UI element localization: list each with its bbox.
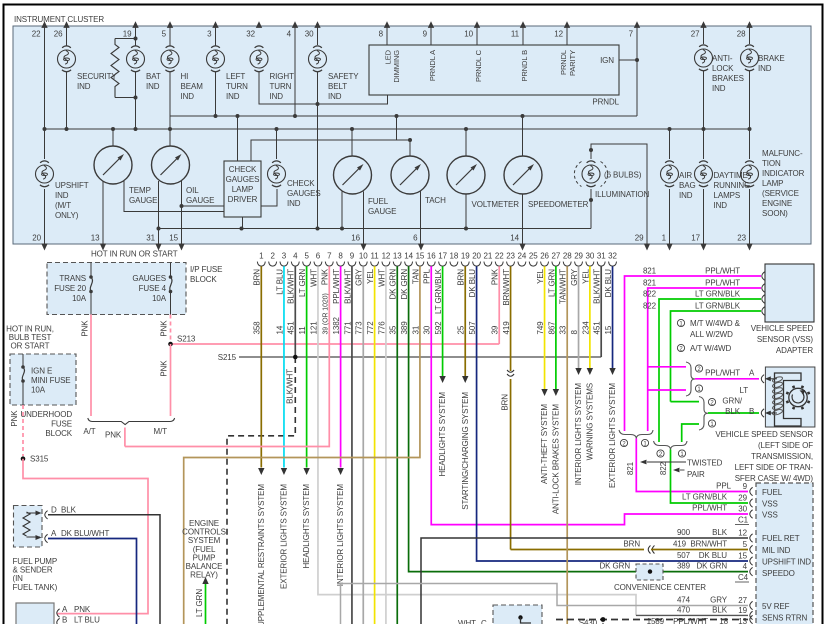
svg-text:16: 16 xyxy=(351,234,360,243)
wire 15 TAN down-left to bottom xyxy=(184,266,420,624)
wire 5 LT GRN to headlights system xyxy=(306,266,308,467)
wire IGN to pin7 xyxy=(619,59,637,61)
svg-text:HEADLIGHTS SYSTEM: HEADLIGHTS SYSTEM xyxy=(302,484,311,569)
svg-text:WHT: WHT xyxy=(377,269,386,287)
svg-text:PRNDL: PRNDL xyxy=(592,98,619,107)
underbrace 821 pair xyxy=(619,430,653,439)
svg-text:29: 29 xyxy=(738,494,747,503)
wire 4 BLK/WHT to S215 xyxy=(294,266,296,357)
svg-text:PNK: PNK xyxy=(105,431,122,440)
pin 2 (harness connector) xyxy=(269,252,277,267)
svg-text:PPL/WHT: PPL/WHT xyxy=(705,369,740,378)
wire 29 GRY to interior lights system xyxy=(578,266,580,368)
brace VSS A select xyxy=(686,362,695,396)
svg-text:TRANS: TRANS xyxy=(59,274,86,283)
svg-text:16: 16 xyxy=(427,252,436,261)
pin 3 (cluster top) xyxy=(207,21,219,38)
wire bus D (y=228.5) xyxy=(159,228,592,230)
pin 13 (harness connector) xyxy=(393,252,402,267)
svg-text:451: 451 xyxy=(593,321,602,335)
wire bus C (y=104) xyxy=(259,72,388,104)
pin 26 (harness connector) xyxy=(540,252,549,267)
vehicle speed sensor box with gear xyxy=(765,367,815,427)
svg-text:IND: IND xyxy=(146,82,160,91)
svg-text:LT GRN/BLK: LT GRN/BLK xyxy=(682,493,728,502)
svg-text:6: 6 xyxy=(413,234,418,243)
svg-text:30: 30 xyxy=(305,30,314,39)
svg-text:MINI FUSE: MINI FUSE xyxy=(31,376,71,385)
svg-text:RIGHT: RIGHT xyxy=(270,72,295,81)
pin 1 (cluster bottom) xyxy=(662,234,673,251)
pin 8 (harness connector) xyxy=(337,252,345,267)
svg-text:28: 28 xyxy=(563,252,572,261)
lamp SECURITY IND xyxy=(58,46,118,91)
wire 28 TAN/WHT down xyxy=(566,266,568,624)
svg-text:3: 3 xyxy=(282,252,287,261)
svg-text:26: 26 xyxy=(540,252,549,261)
pin 8 (cluster top) xyxy=(379,21,391,38)
PCM connector box (dashed) xyxy=(756,483,813,624)
pin 11 (cluster top) xyxy=(511,21,526,38)
pin arc fuel pump A xyxy=(45,534,48,542)
wire 30 YEL to warning systems xyxy=(589,266,591,368)
svg-text:11: 11 xyxy=(511,30,520,39)
svg-text:SUPPLEMENTAL RESTRAINTS SYSTEM: SUPPLEMENTAL RESTRAINTS SYSTEM xyxy=(257,484,266,624)
svg-text:S213: S213 xyxy=(177,335,196,344)
svg-text:A: A xyxy=(749,369,755,378)
svg-text:FUSE 4: FUSE 4 xyxy=(139,284,167,293)
wire temp gauge top lead xyxy=(112,129,114,146)
svg-text:15: 15 xyxy=(738,552,747,561)
pin 28 (harness connector) xyxy=(563,252,572,267)
svg-text:BLOCK: BLOCK xyxy=(45,429,72,438)
svg-text:IND: IND xyxy=(226,92,240,101)
svg-text:IGN: IGN xyxy=(600,56,614,65)
svg-text:18: 18 xyxy=(719,617,728,624)
wire 7 PNK to A/T-M/T splice xyxy=(125,266,329,446)
pin 27 PCM (5V REF) xyxy=(750,601,753,609)
svg-text:S215: S215 xyxy=(218,353,237,362)
pin arc VSS sensor B xyxy=(761,409,764,417)
pin 29 PCM (VSS) xyxy=(750,499,753,507)
svg-text:TURN: TURN xyxy=(270,82,292,91)
svg-text:VSS: VSS xyxy=(762,500,778,509)
pin 31 (harness connector) xyxy=(597,252,606,267)
circled 2 (brace B) xyxy=(708,398,715,405)
svg-text:1589: 1589 xyxy=(647,617,665,624)
svg-text:DK BLU: DK BLU xyxy=(699,551,728,560)
svg-text:17: 17 xyxy=(691,234,700,243)
svg-text:4: 4 xyxy=(293,252,298,261)
pin 26 (cluster top) xyxy=(54,21,70,38)
svg-text:AIR: AIR xyxy=(679,171,692,180)
svg-text:SOON): SOON) xyxy=(762,209,788,218)
svg-text:PPL/WHT: PPL/WHT xyxy=(673,617,708,624)
gauge FUEL GAUGE xyxy=(334,156,397,216)
wire 474 GRY to PCM 5V REF pin 27 xyxy=(341,584,749,624)
pin 10 (cluster top) xyxy=(464,21,480,38)
svg-text:TWISTED: TWISTED xyxy=(687,459,723,468)
pin 5 (cluster top) xyxy=(162,21,174,38)
svg-text:6: 6 xyxy=(316,252,321,261)
pin 29 (cluster bottom) xyxy=(635,234,650,251)
wire illumination bottom lead to bus D xyxy=(590,189,592,229)
svg-text:22: 22 xyxy=(495,252,504,261)
wire bus A to TACH riser xyxy=(396,116,398,140)
svg-text:LT GRN/BLK: LT GRN/BLK xyxy=(434,268,443,314)
svg-text:A: A xyxy=(62,605,68,614)
wire voltmeter top lead xyxy=(465,129,467,156)
svg-text:17: 17 xyxy=(438,252,447,261)
svg-text:GRY: GRY xyxy=(355,268,364,286)
wire 1 BRN to supplemental restraints system xyxy=(260,266,262,467)
svg-text:IND: IND xyxy=(55,191,69,200)
pin 14 (harness connector) xyxy=(404,252,413,267)
svg-text:BELT: BELT xyxy=(328,82,347,91)
wire 32 DK BLU to exterior lights system xyxy=(612,266,614,368)
svg-text:MIL IND: MIL IND xyxy=(762,546,791,555)
svg-text:SAFETY: SAFETY xyxy=(328,72,359,81)
pin 29 (harness connector) xyxy=(574,252,583,267)
wires PRNDL pins to box top xyxy=(386,26,388,45)
wire 19 BRN to starting/charging system xyxy=(464,266,466,376)
legend circled 1: M/T W/4WD & ALL W/2WD xyxy=(677,319,684,326)
svg-text:30: 30 xyxy=(586,252,595,261)
svg-text:TURN: TURN xyxy=(226,82,248,91)
brace VSS B select xyxy=(699,397,708,431)
svg-text:PNK: PNK xyxy=(10,410,19,427)
svg-text:PPL: PPL xyxy=(423,268,432,283)
svg-text:ANTI-THEFT SYSTEM: ANTI-THEFT SYSTEM xyxy=(540,404,549,484)
wire PNK S213 down to brace xyxy=(170,344,172,416)
svg-text:822: 822 xyxy=(659,461,668,475)
svg-text:TEMP: TEMP xyxy=(129,186,151,195)
svg-text:STARTING/CHARGING SYSTEM: STARTING/CHARGING SYSTEM xyxy=(461,392,470,510)
wire pin27/antilock + daytime vertical xyxy=(703,26,705,44)
svg-text:35: 35 xyxy=(389,325,398,334)
pin 12 PCM (FUEL RET) xyxy=(750,534,753,542)
svg-text:FUEL: FUEL xyxy=(368,197,389,206)
wire 22 PNK to S213 rail xyxy=(498,266,500,344)
wire check gauges ind bottom to driver xyxy=(261,189,277,206)
lamp BAT IND xyxy=(127,46,161,91)
svg-text:IND: IND xyxy=(287,199,301,208)
svg-text:ONLY): ONLY) xyxy=(55,211,79,220)
svg-text:HI: HI xyxy=(181,72,189,81)
svg-text:IND: IND xyxy=(758,64,772,73)
svg-text:772: 772 xyxy=(366,321,375,335)
gauge VOLTMETER xyxy=(447,156,519,209)
svg-text:BLOCK: BLOCK xyxy=(190,275,217,284)
wire 12 WHT down xyxy=(385,266,387,624)
svg-text:GRN/: GRN/ xyxy=(722,397,742,406)
svg-text:SENSOR (VSS): SENSOR (VSS) xyxy=(757,335,814,344)
svg-text:GAUGES: GAUGES xyxy=(287,189,321,198)
svg-text:FUEL RET: FUEL RET xyxy=(762,534,800,543)
svg-text:9: 9 xyxy=(743,482,748,491)
pin 19 PCM (SENS RTRN) xyxy=(750,611,753,619)
svg-text:10: 10 xyxy=(464,30,473,39)
pin 22 (harness connector) xyxy=(495,252,504,267)
junction dot tach riser xyxy=(408,138,412,142)
svg-text:ALL W/2WD: ALL W/2WD xyxy=(690,330,733,339)
svg-text:CHECK: CHECK xyxy=(287,179,315,188)
fuse GAUGES FUSE 4 10A xyxy=(132,263,172,315)
pin 13 (cluster bottom) xyxy=(91,234,106,251)
svg-text:19: 19 xyxy=(461,252,470,261)
wire bus A (IGN rail y=116) xyxy=(170,115,637,117)
svg-text:10A: 10A xyxy=(152,294,167,303)
wire 8 PPL/WHT to interior lights system xyxy=(340,266,342,467)
pin arc A xyxy=(57,609,60,617)
svg-text:IND: IND xyxy=(679,191,693,200)
lamp LEFT TURN IND xyxy=(207,46,249,101)
sender wiper arrows xyxy=(27,512,41,514)
lamp DAYTIME RUNNING LAMPS IND xyxy=(695,161,751,210)
svg-text:YEL: YEL xyxy=(366,268,375,283)
svg-text:INTERIOR LIGHTS SYSTEM: INTERIOR LIGHTS SYSTEM xyxy=(574,383,583,486)
svg-text:DK GRN: DK GRN xyxy=(400,269,409,300)
svg-text:PNK: PNK xyxy=(491,268,500,285)
wire pin22/upshift vertical xyxy=(44,26,46,159)
pin 17 (cluster bottom) xyxy=(691,234,706,251)
svg-text:PRNDL B: PRNDL B xyxy=(520,50,529,82)
svg-text:821: 821 xyxy=(643,267,657,276)
svg-text:LAMPS: LAMPS xyxy=(714,191,741,200)
wire LT GRN up-arrow to fuel pump balance relay xyxy=(205,584,207,624)
svg-text:900: 900 xyxy=(677,528,691,537)
svg-text:(SERVICE: (SERVICE xyxy=(762,189,799,198)
fuse TRANS FUSE 20 10A xyxy=(54,263,93,315)
svg-text:8: 8 xyxy=(570,330,579,335)
wire y140 link xyxy=(251,140,410,161)
svg-text:822: 822 xyxy=(643,302,657,311)
wire 822 LT GRN/BLK row 3 xyxy=(659,299,761,442)
svg-text:TAN/WHT: TAN/WHT xyxy=(559,269,568,304)
svg-text:PAIR: PAIR xyxy=(687,470,705,479)
wire pin28/brake + MIL vertical xyxy=(749,26,751,44)
gauge OIL GAUGE xyxy=(152,146,215,205)
circled 2 (brace A) xyxy=(695,365,702,372)
pin 12 (cluster top) xyxy=(554,21,570,38)
junction dot bus C safety belt xyxy=(316,102,320,106)
svg-text:DK BLU/WHT: DK BLU/WHT xyxy=(61,529,110,538)
circled 1 (underbrace 821) xyxy=(641,439,648,446)
sender resistor xyxy=(23,512,30,536)
svg-text:19: 19 xyxy=(123,30,132,39)
pin 19 (harness connector) xyxy=(461,252,470,267)
svg-text:8: 8 xyxy=(338,252,343,261)
wire PNK from gauges fuse to S213 (dashed) xyxy=(170,315,172,345)
svg-text:PNK: PNK xyxy=(160,360,169,377)
pin 5 (harness connector) xyxy=(303,252,311,267)
pin 4 (cluster top) xyxy=(287,21,299,38)
svg-text:5V REF: 5V REF xyxy=(762,602,790,611)
lamp MALFUNCTION INDICATOR xyxy=(741,149,805,218)
svg-text:SPEEDO: SPEEDO xyxy=(762,569,795,578)
svg-text:MALFUNC-: MALFUNC- xyxy=(762,149,803,158)
svg-text:ADAPTER: ADAPTER xyxy=(776,346,813,355)
svg-text:234: 234 xyxy=(581,321,590,335)
svg-text:LT GRN: LT GRN xyxy=(298,269,307,297)
wire pin5/hibeam vertical to oil gauge xyxy=(169,26,171,46)
wire fuel gauge left lead to bus D xyxy=(341,192,343,229)
svg-text:VEHICLE SPEED SENSOR: VEHICLE SPEED SENSOR xyxy=(715,430,813,439)
svg-text:27: 27 xyxy=(738,596,747,605)
svg-text:5: 5 xyxy=(743,540,748,549)
pin 20 (harness connector) xyxy=(472,252,481,267)
wire tach bottom lead to pin 6 xyxy=(420,192,422,244)
svg-text:OIL: OIL xyxy=(186,186,199,195)
svg-text:PPL/WHT: PPL/WHT xyxy=(705,279,740,288)
svg-text:FUSE: FUSE xyxy=(51,420,72,429)
PRNDL display module box xyxy=(369,45,619,95)
svg-text:C1: C1 xyxy=(738,516,749,525)
svg-text:BRN: BRN xyxy=(501,394,510,411)
pin 27 (cluster top) xyxy=(691,21,707,38)
svg-text:DAYTIME: DAYTIME xyxy=(714,171,748,180)
pin 15 (cluster bottom) xyxy=(169,234,184,251)
wire pin4 to bus A xyxy=(294,26,296,116)
wire daytime bottom lead to pin 17 xyxy=(703,189,705,244)
junction dot IGN node xyxy=(635,58,639,62)
pin 6 (harness connector) xyxy=(314,252,322,267)
svg-text:771: 771 xyxy=(343,321,352,335)
wire temp gauge left lead to pin 13 xyxy=(102,181,104,244)
wire 6 WHT down to lower right xyxy=(318,266,636,615)
svg-text:419: 419 xyxy=(673,540,687,549)
check gauges lamp driver box U1 xyxy=(224,161,261,217)
wire 27 LT GRN to anti-lock brakes system xyxy=(555,266,557,389)
pin 14 (cluster bottom) xyxy=(510,234,525,251)
wire 20 DK BLU to PCM UPSHIFT IND pin 15 xyxy=(477,266,748,561)
pin 4 PCM (SPEEDO) xyxy=(750,567,753,575)
svg-text:SPEEDOMETER: SPEEDOMETER xyxy=(528,200,589,209)
svg-text:VSS: VSS xyxy=(762,511,778,520)
svg-text:10A: 10A xyxy=(31,386,46,395)
wire fuel gauge right lead to pin 16 xyxy=(363,192,365,244)
svg-text:OR START: OR START xyxy=(11,342,50,351)
wire 1589 PPL/WHT dashed S430 xyxy=(556,619,748,621)
wire PNK S213 rail to pin 22 xyxy=(171,343,500,345)
svg-text:LT GRN: LT GRN xyxy=(547,269,556,297)
pin 32 (harness connector) xyxy=(608,252,617,267)
svg-text:WHT: WHT xyxy=(309,269,318,287)
svg-text:451: 451 xyxy=(287,321,296,335)
svg-text:SECURITY: SECURITY xyxy=(77,72,117,81)
svg-text:7: 7 xyxy=(629,30,634,39)
svg-text:21: 21 xyxy=(484,252,493,261)
svg-text:27: 27 xyxy=(691,30,700,39)
circled 1 (brace B) xyxy=(708,420,715,427)
svg-text:D: D xyxy=(51,506,57,515)
svg-text:14: 14 xyxy=(275,325,284,334)
svg-text:PPL/WHT: PPL/WHT xyxy=(692,504,727,513)
svg-text:FUEL: FUEL xyxy=(762,488,783,497)
gauge TACH xyxy=(391,156,446,205)
pin 10 (harness connector) xyxy=(359,252,368,267)
wire 9 BLK/WHT down xyxy=(351,266,353,624)
svg-text:BRAKE: BRAKE xyxy=(758,54,785,63)
svg-text:30: 30 xyxy=(423,325,432,334)
svg-text:IND: IND xyxy=(181,92,195,101)
svg-text:TION: TION xyxy=(762,159,781,168)
wire temp gauge right lead to driver xyxy=(124,181,224,212)
svg-text:BRN: BRN xyxy=(457,269,466,286)
svg-text:20: 20 xyxy=(472,252,481,261)
svg-text:BAG: BAG xyxy=(679,181,696,190)
svg-text:IND: IND xyxy=(270,92,284,101)
svg-text:M/T: M/T xyxy=(154,427,168,436)
svg-text:GAUGE: GAUGE xyxy=(368,207,396,216)
pin 3 (harness connector) xyxy=(280,252,288,267)
pin 7 (cluster top) xyxy=(629,21,641,38)
inline connector and labels on MIL row xyxy=(648,546,654,554)
pin 24 (harness connector) xyxy=(518,252,527,267)
svg-text:LAMP: LAMP xyxy=(232,185,253,194)
fuel pump & sender box (dashed) xyxy=(14,506,43,548)
svg-text:12: 12 xyxy=(738,529,747,538)
svg-text:B: B xyxy=(749,407,754,416)
svg-text:I/P FUSE: I/P FUSE xyxy=(190,265,222,274)
lamp BRAKE IND xyxy=(741,45,785,73)
wire BLK from fuel pump D xyxy=(48,515,160,624)
svg-text:BAT: BAT xyxy=(146,72,161,81)
svg-text:A/T W/4WD: A/T W/4WD xyxy=(690,344,731,353)
svg-text:ENGINE: ENGINE xyxy=(762,199,792,208)
svg-text:LOCK: LOCK xyxy=(712,64,734,73)
svg-text:32: 32 xyxy=(246,30,255,39)
pin 13 PCM (dashed row) xyxy=(750,615,753,623)
pin arc fuel pump D xyxy=(45,511,48,519)
pin 7 (harness connector) xyxy=(325,252,333,267)
svg-text:18: 18 xyxy=(450,252,459,261)
svg-text:4: 4 xyxy=(287,30,292,39)
svg-text:31: 31 xyxy=(411,325,420,334)
svg-text:PRNDL C: PRNDL C xyxy=(474,49,483,82)
svg-text:BLK/WHT: BLK/WHT xyxy=(287,269,296,304)
junction dots bus B xyxy=(43,127,47,131)
svg-text:29: 29 xyxy=(635,234,644,243)
svg-text:TRANSMISSION,: TRANSMISSION, xyxy=(751,452,813,461)
svg-text:TACH: TACH xyxy=(425,196,446,205)
svg-text:ILLUMINATION: ILLUMINATION xyxy=(595,190,650,199)
svg-text:LAMP: LAMP xyxy=(762,179,783,188)
junction dots resistor taps xyxy=(134,37,138,41)
wire 11 YEL down xyxy=(374,266,376,624)
bottom connector box xyxy=(16,603,54,624)
svg-text:24: 24 xyxy=(518,252,527,261)
svg-text:7: 7 xyxy=(327,252,332,261)
pin 9 (cluster top) xyxy=(423,21,435,38)
wire voltmeter bottom lead to bus D xyxy=(465,195,467,229)
wire 821 PPL/WHT row 2 xyxy=(648,288,761,431)
wire 13 DK GRN down xyxy=(396,266,398,624)
wire PNK underhood fuse to S315 (dashed) xyxy=(22,405,24,456)
svg-text:ANTI-LOCK BRAKES SYSTEM: ANTI-LOCK BRAKES SYSTEM xyxy=(551,404,560,515)
svg-text:12: 12 xyxy=(554,30,563,39)
svg-text:LT BLU: LT BLU xyxy=(74,616,100,624)
svg-text:C4: C4 xyxy=(738,573,749,582)
svg-text:PNK: PNK xyxy=(81,320,90,337)
svg-text:BLK: BLK xyxy=(712,606,728,615)
svg-text:13: 13 xyxy=(91,234,100,243)
wire 3 LT BLU to exterior lights system xyxy=(283,266,285,467)
svg-text:PARITY: PARITY xyxy=(568,50,577,76)
lamp AIR BAG IND xyxy=(661,161,696,200)
pin 9 (harness connector) xyxy=(348,252,356,267)
pin 5 PCM (MIL IND) xyxy=(750,545,753,553)
